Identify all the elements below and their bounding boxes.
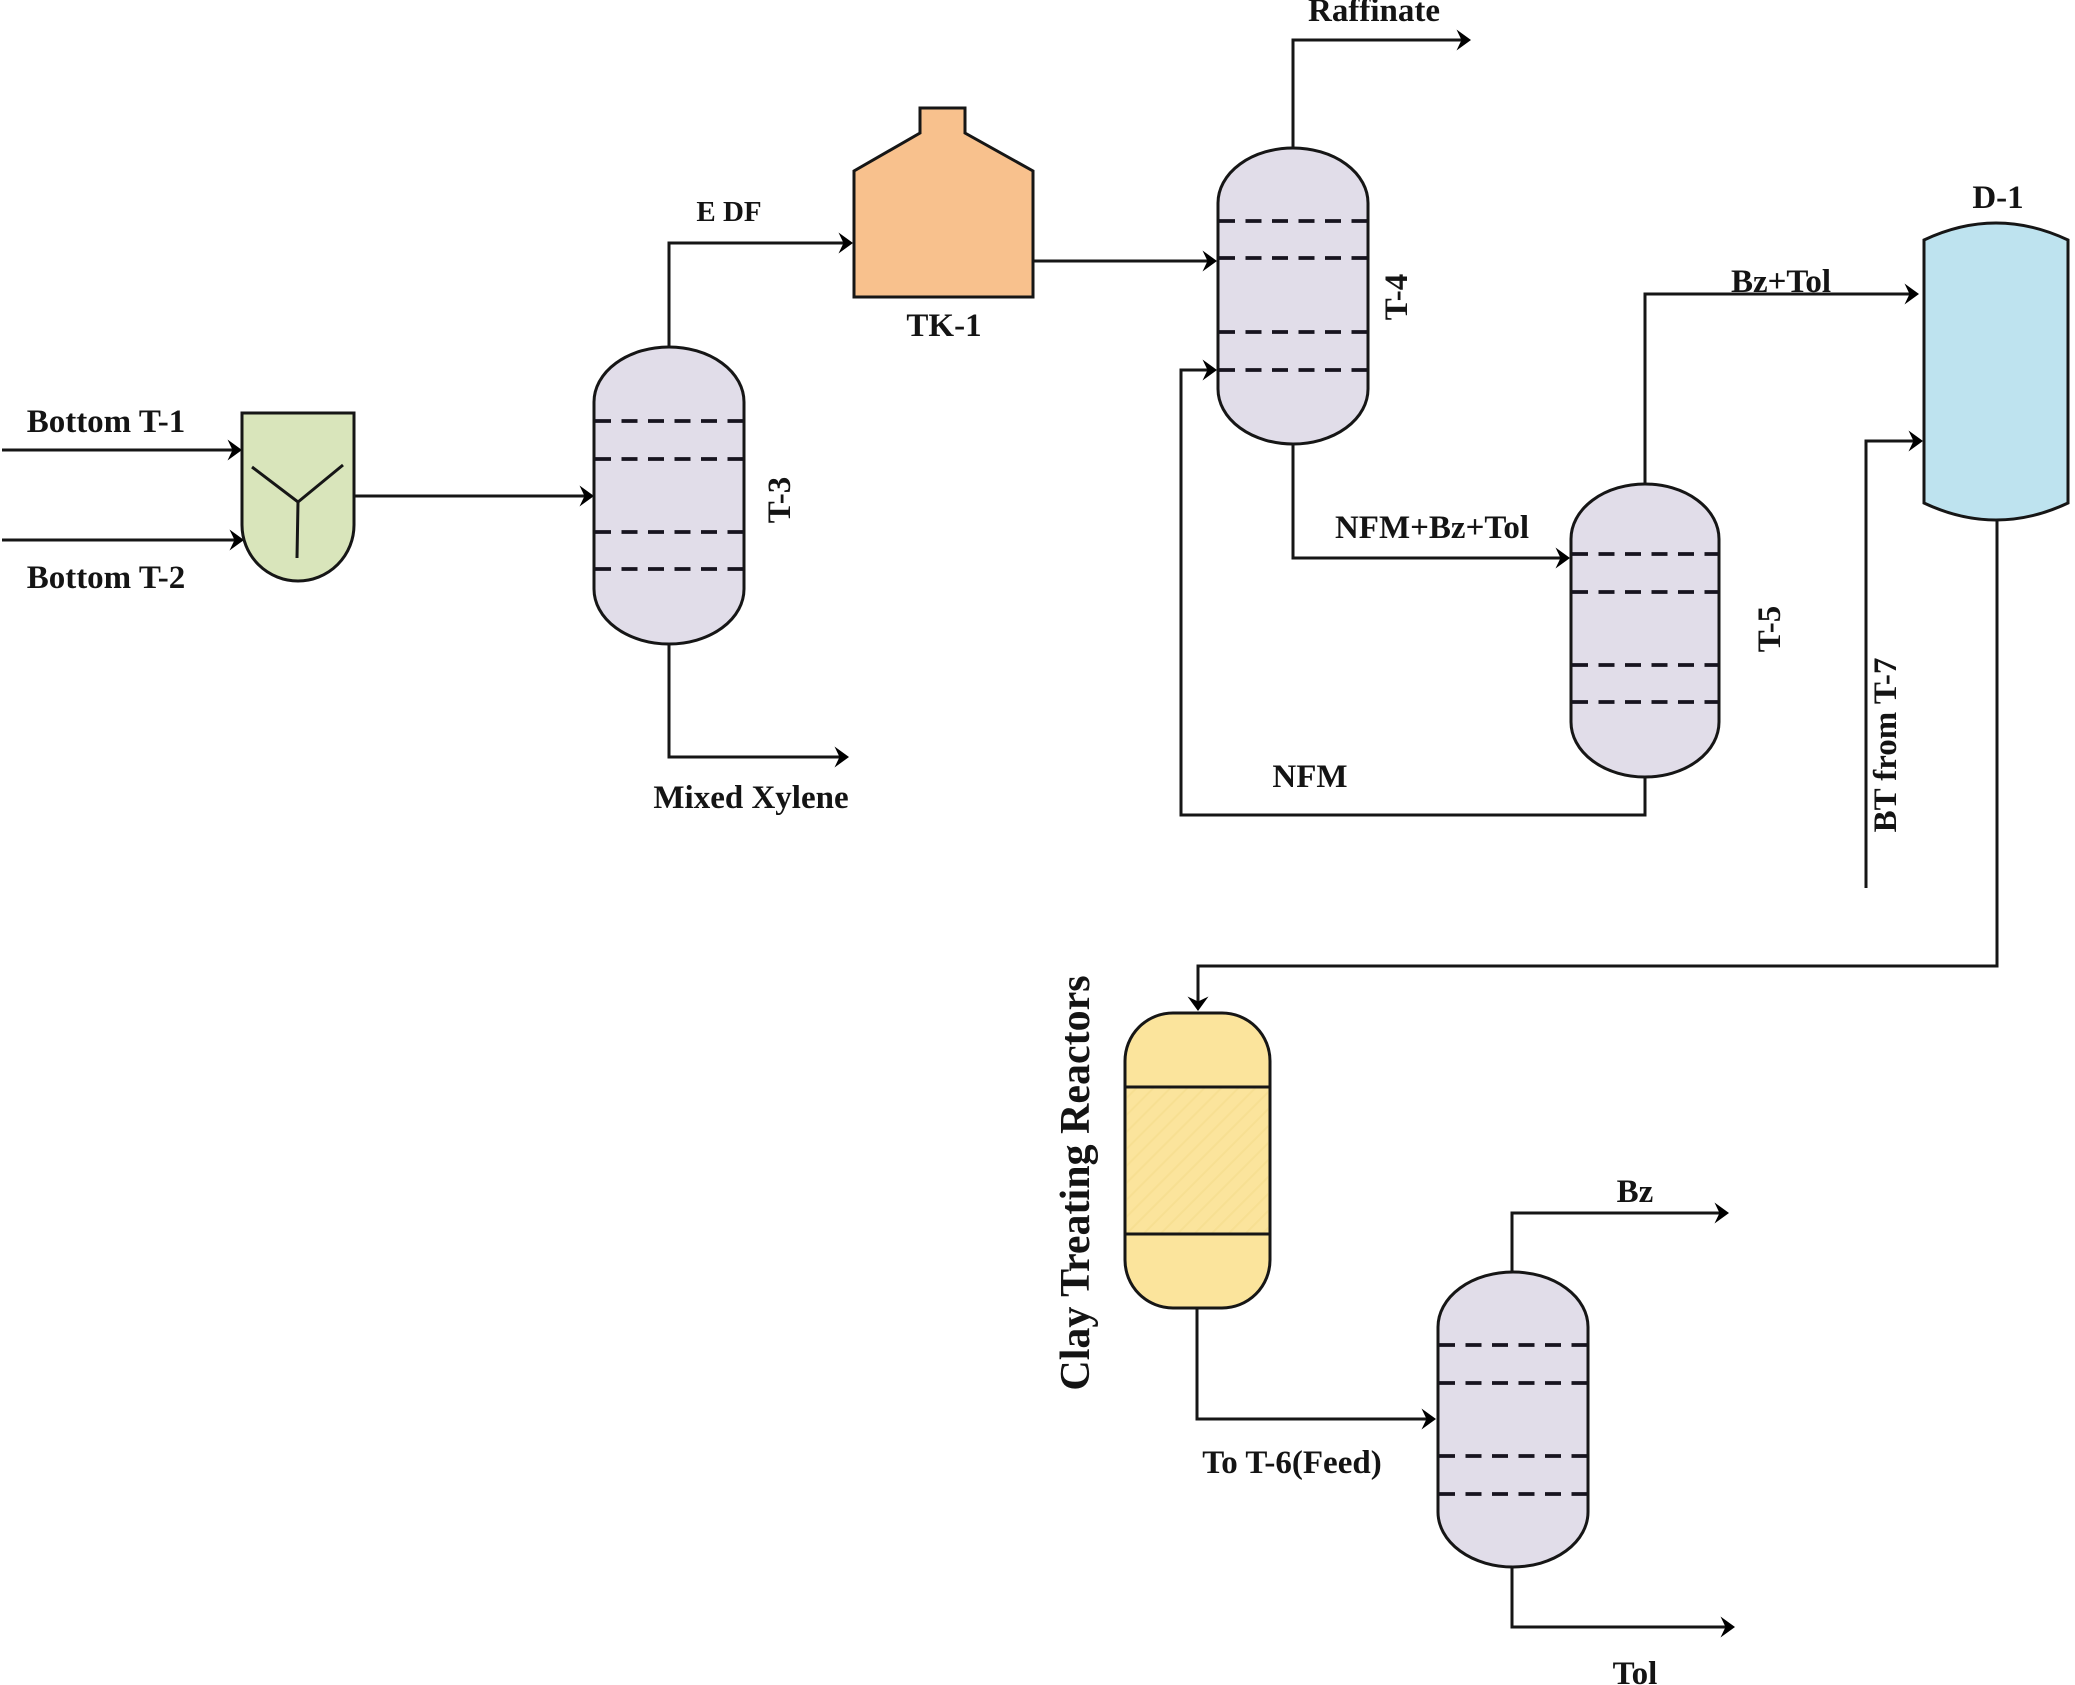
svg-text:Mixed Xylene: Mixed Xylene xyxy=(653,780,848,816)
svg-text:Bz+Tol: Bz+Tol xyxy=(1731,264,1831,300)
svg-text:TK-1: TK-1 xyxy=(906,308,981,344)
svg-text:NFM: NFM xyxy=(1272,759,1347,795)
svg-text:E DF: E DF xyxy=(696,196,761,228)
svg-text:Clay Treating Reactors: Clay Treating Reactors xyxy=(1053,975,1099,1390)
svg-text:BT from T-7: BT from T-7 xyxy=(1868,658,1904,833)
svg-text:Bottom T-2: Bottom T-2 xyxy=(27,560,186,596)
svg-text:Bottom T-1: Bottom T-1 xyxy=(27,404,186,440)
svg-text:D-1: D-1 xyxy=(1972,180,2023,216)
svg-text:To T-6(Feed): To T-6(Feed) xyxy=(1202,1445,1381,1481)
svg-text:T-3: T-3 xyxy=(762,477,798,523)
svg-text:Raffinate: Raffinate xyxy=(1308,0,1440,29)
svg-text:T-5: T-5 xyxy=(1752,606,1788,652)
svg-text:Tol: Tol xyxy=(1613,1656,1658,1685)
svg-text:T-4: T-4 xyxy=(1379,274,1415,320)
svg-text:Bz: Bz xyxy=(1617,1174,1654,1210)
svg-text:NFM+Bz+Tol: NFM+Bz+Tol xyxy=(1335,510,1529,546)
